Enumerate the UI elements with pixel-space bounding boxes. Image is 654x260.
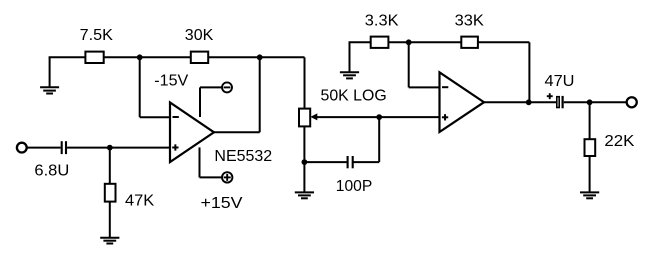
wire ground G1 to R1 (49, 56, 86, 58)
wire wiper to non-inverting input (317, 116, 440, 118)
svg-text:-15V: -15V (154, 73, 188, 90)
svg-text:7.5K: 7.5K (80, 27, 114, 44)
node dot D1 (op-amp1 inverting node) (137, 54, 143, 60)
input terminal (17, 143, 27, 153)
node dot D2 (op-amp1 output node) (257, 54, 263, 60)
svg-text:100P: 100P (336, 178, 373, 195)
wire op-amp2 output to C3 (484, 101, 556, 103)
ground G1 (left of 7.5K) (40, 57, 59, 93)
V+ supply terminal (circle plus) (222, 172, 232, 182)
wire D4 down to inverting input (409, 42, 440, 87)
capacitor C1 6.8U (34, 141, 69, 180)
wire feedback down to output (528, 42, 530, 102)
resistor R6 22K (585, 133, 635, 156)
wire pot bottom to ground (303, 126, 305, 192)
ground G2 (left of 3.3K) (340, 42, 359, 78)
svg-text:30K: 30K (185, 27, 214, 44)
capacitor C3 47U (polarized) (545, 73, 575, 108)
node dot D4 (op-amp2 inverting node) (406, 39, 412, 45)
resistor R4 3.3K (365, 12, 399, 48)
wire R2 to pot branch (208, 56, 304, 58)
resistor R1 7.5K (80, 27, 114, 63)
svg-text:33K: 33K (455, 12, 485, 29)
svg-text:22K: 22K (604, 133, 634, 150)
wire C3 to output terminal (564, 101, 627, 103)
node dot D5 (100P top junction) (376, 114, 382, 120)
svg-text:6.8U: 6.8U (34, 163, 69, 180)
op-amp U2 (440, 72, 485, 132)
wire R5 to feedback corner (478, 41, 530, 43)
ground G3 (below 47K) (100, 238, 119, 244)
potentiometer 50K LOG (299, 87, 387, 126)
wire R4 to R5 (388, 41, 461, 43)
wire op-amp1 output up to D2 (214, 57, 260, 132)
wire D8 down to R6 (589, 102, 591, 139)
op-amp U1 (170, 103, 214, 163)
resistor R3 47K (105, 184, 155, 210)
resistor R5 33K (455, 12, 485, 48)
wire R1 to R2 (104, 56, 191, 58)
svg-text:3.3K: 3.3K (365, 12, 399, 29)
wire down to pot top (304, 57, 306, 108)
wire D5 down to C2 (353, 117, 379, 162)
svg-text:NE5532: NE5532 (214, 148, 272, 165)
svg-text:50K LOG: 50K LOG (321, 87, 387, 104)
node dot D3 (47K junction) (107, 145, 113, 151)
V- supply terminal (circle minus) (222, 82, 232, 92)
node dot D7 (feedback junction) (526, 99, 532, 105)
node dot D6 (pot bottom / C2 junction) (302, 159, 308, 165)
svg-text:47U: 47U (545, 73, 575, 90)
wire R3 to ground (109, 202, 111, 238)
wire R6 to ground (589, 156, 591, 192)
node dot D8 (22K junction) (587, 99, 593, 105)
V+ supply pin wire (200, 147, 223, 177)
wire D1 down to inverting input (140, 57, 170, 117)
output terminal (627, 97, 637, 107)
wire C1 to non-inverting input (67, 147, 170, 149)
wire C2 to pot bottom branch (304, 161, 346, 163)
V- supply pin wire (200, 87, 222, 117)
ground G5 (below 22K) (580, 192, 599, 198)
wire D3 down to R3 (109, 148, 111, 184)
wire terminal to C1 (27, 147, 61, 149)
ground G4 (below pot) (295, 192, 314, 198)
resistor R2 30K (185, 27, 214, 63)
wire G2 to R4 (349, 41, 371, 43)
svg-text:47K: 47K (125, 193, 155, 210)
svg-text:+15V: +15V (201, 195, 243, 212)
capacitor C2 100P (336, 156, 373, 195)
